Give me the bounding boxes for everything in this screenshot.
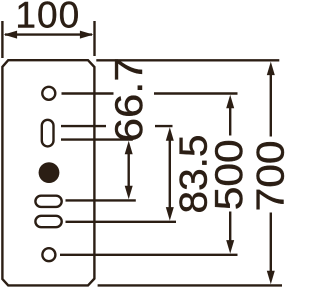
dimension line 500 bottom	[229, 212, 231, 248]
leader bottom circle	[60, 254, 238, 256]
arrow 100 right	[80, 31, 94, 39]
arrow 100 left	[4, 31, 18, 39]
plate top extension line	[96, 59, 279, 61]
arrow 700 down	[267, 271, 275, 285]
leader slot top arc	[61, 125, 106, 127]
leader top circle	[62, 92, 114, 94]
arrow 500 up	[226, 95, 234, 109]
hole oval slot 1	[35, 196, 61, 207]
leader oval slot 2	[66, 221, 177, 223]
plate bottom extension line	[98, 284, 282, 286]
arrow 500 down	[226, 240, 234, 254]
svg-text:700: 700	[250, 140, 293, 211]
arrow 66.7 down	[125, 186, 133, 200]
dimension line 100	[5, 33, 92, 35]
svg-text:66.7: 66.7	[108, 57, 151, 142]
svg-text:100: 100	[15, 0, 80, 36]
svg-text:500: 500	[208, 139, 251, 210]
dimension line 700 bottom	[270, 213, 272, 279]
dimension line 66.7	[127, 147, 129, 193]
extension line left of 100 dim	[1, 21, 3, 58]
hole vertical slot	[42, 120, 54, 147]
dimension line 700 top	[270, 68, 272, 137]
hole top circle	[42, 87, 55, 100]
hole bottom circle	[42, 248, 55, 261]
plate outline	[2, 60, 94, 285]
hole center filled circle	[39, 162, 60, 183]
leader slot bottom arc	[61, 138, 133, 140]
dimension line 500 top	[229, 101, 231, 136]
hole oval slot 2	[35, 216, 61, 227]
arrow 83.5 down	[166, 207, 174, 221]
arrow 83.5 up	[166, 127, 174, 141]
leader oval slot 1	[66, 199, 136, 201]
extension line right of 100 dim	[93, 21, 95, 56]
arrow 66.7 up	[125, 141, 133, 155]
dimension line 83.5	[169, 134, 171, 214]
arrow 700 up	[267, 62, 275, 76]
